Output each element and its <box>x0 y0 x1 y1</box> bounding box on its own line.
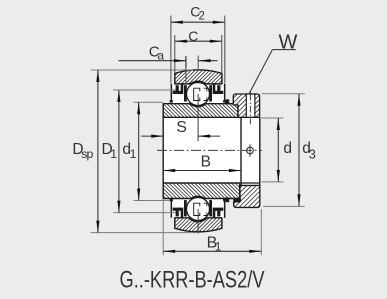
seal cavity white bottom <box>171 198 224 218</box>
d3 dim <box>298 94 300 207</box>
B1 arrows <box>163 250 175 253</box>
C2 dim <box>171 21 225 23</box>
Dsp dim <box>97 70 99 233</box>
left face edge+ext <box>162 199 164 256</box>
inner ring top bar <box>163 104 238 118</box>
B dim <box>163 170 241 172</box>
svg-text:1: 1 <box>215 239 222 253</box>
svg-text:d: d <box>283 140 292 157</box>
center plane line top <box>197 94 199 141</box>
Ca tick left <box>185 56 187 68</box>
d3 bottom ext <box>263 205 305 207</box>
collar side band lines in bore <box>240 117 242 185</box>
d3 top ext <box>262 93 305 95</box>
d1 bottom ext <box>134 200 169 202</box>
bore strip white <box>163 117 260 183</box>
svg-text:1: 1 <box>110 147 117 161</box>
d dim <box>277 118 279 182</box>
collar top block <box>233 94 259 117</box>
Ca dim left/right <box>119 60 186 62</box>
inner ring left face line across bore <box>162 117 164 183</box>
ball top <box>187 83 210 106</box>
left seal top <box>170 84 187 103</box>
V-seal wedge top at collar <box>225 99 229 104</box>
Ca left ext <box>185 56 187 84</box>
C2 arrows <box>171 21 183 24</box>
gap shadow bottom collar step <box>233 198 241 202</box>
svg-text:1: 1 <box>130 147 137 161</box>
dimension lines with arrows <box>98 22 299 251</box>
B arrows <box>163 169 175 172</box>
seal cavity white top <box>171 84 224 104</box>
D1 dim <box>118 90 120 213</box>
d3 arrows <box>297 94 300 106</box>
right seal bottom <box>209 199 226 218</box>
ball bottom <box>187 198 210 221</box>
C arrows <box>175 40 187 43</box>
svg-text:sp: sp <box>81 147 93 161</box>
bore edge line under collar band <box>241 182 260 184</box>
svg-text:3: 3 <box>309 146 316 161</box>
cage marks top ball <box>194 88 207 100</box>
center plane line bottom <box>197 209 199 234</box>
B1 right ext <box>260 209 262 255</box>
C2 right ext <box>224 16 226 84</box>
Ca arrows <box>174 59 186 62</box>
V-seal wedge bottom at collar <box>225 197 229 202</box>
S dim left/right <box>141 135 163 137</box>
Dsp bottom ext <box>91 232 196 234</box>
right seal top <box>209 84 226 103</box>
outer ring bottom <box>175 218 222 232</box>
svg-text:C: C <box>188 28 198 44</box>
inner ring bottom bar <box>163 183 240 199</box>
d1 top ext <box>134 101 163 103</box>
svg-text:B: B <box>201 153 211 170</box>
W leader <box>272 49 295 51</box>
arrowheads <box>96 21 300 253</box>
B1 dim <box>163 250 261 252</box>
collar bottom block <box>234 185 260 207</box>
outer ring top <box>175 70 222 84</box>
C dim <box>175 40 222 42</box>
S arrows <box>151 135 163 138</box>
d arrows <box>277 118 280 130</box>
Dsp arrows <box>96 70 99 82</box>
C2 left ext <box>170 16 172 84</box>
collar hole centerline <box>249 94 251 117</box>
D1 bottom ext <box>113 212 176 214</box>
collar clearance gap white <box>240 183 260 186</box>
cage marks bottom ball <box>194 203 207 215</box>
D1 arrows <box>117 90 120 102</box>
axis centerline <box>157 149 262 151</box>
d bottom ext <box>262 181 284 183</box>
svg-text:G..-KRR-B-AS2/V: G..-KRR-B-AS2/V <box>120 266 266 293</box>
Dsp top ext <box>91 69 193 71</box>
left seal bottom <box>170 199 187 218</box>
svg-text:S: S <box>176 119 187 136</box>
svg-text:W: W <box>279 31 298 53</box>
slot in collar <box>246 94 255 117</box>
D1 top ext <box>113 89 176 91</box>
Ca right tick <box>197 56 199 69</box>
svg-text:a: a <box>157 49 164 63</box>
d1 arrows <box>137 102 140 114</box>
d top ext <box>262 117 284 119</box>
C right ext <box>221 35 223 73</box>
circle cross marker <box>247 147 254 154</box>
d1 dim <box>138 102 140 200</box>
C left ext <box>174 35 176 73</box>
svg-text:2: 2 <box>199 10 205 22</box>
